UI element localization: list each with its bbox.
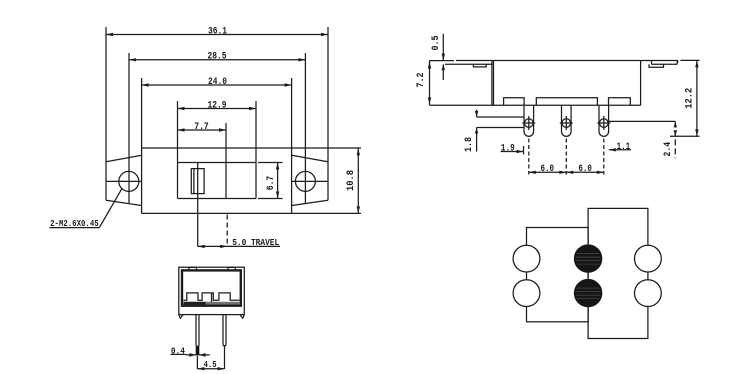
svg-text:7.7: 7.7	[194, 122, 209, 133]
svg-text:12.9: 12.9	[208, 100, 227, 111]
svg-text:28.5: 28.5	[208, 52, 227, 63]
svg-text:6.0: 6.0	[578, 164, 592, 175]
svg-text:10.8: 10.8	[346, 170, 357, 191]
svg-text:6.7: 6.7	[266, 176, 277, 191]
svg-text:6.0: 6.0	[541, 164, 555, 175]
svg-text:2.4: 2.4	[663, 142, 674, 157]
svg-text:24.0: 24.0	[208, 77, 227, 88]
svg-text:12.2: 12.2	[684, 88, 695, 109]
svg-text:4.5: 4.5	[204, 359, 217, 370]
svg-text:1.1: 1.1	[617, 142, 631, 153]
svg-text:5.0 TRAVEL: 5.0 TRAVEL	[232, 237, 279, 248]
svg-text:1.8: 1.8	[464, 137, 475, 152]
svg-text:1.9: 1.9	[501, 143, 515, 154]
svg-text:0.5: 0.5	[431, 36, 442, 51]
svg-text:7.2: 7.2	[416, 73, 427, 88]
svg-text:36.1: 36.1	[208, 26, 227, 37]
